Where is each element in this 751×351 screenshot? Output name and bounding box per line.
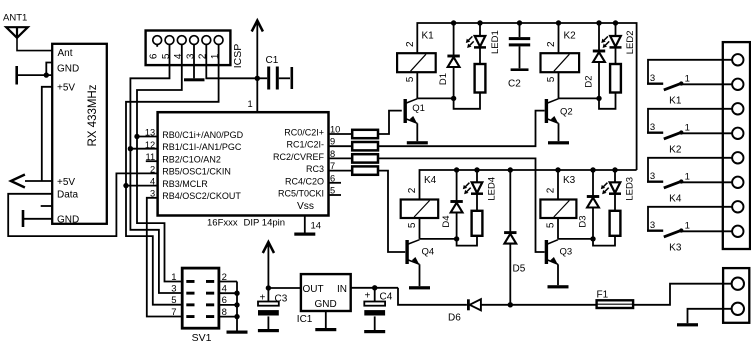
wire relay rail lower <box>420 170 637 200</box>
ground Q2 <box>548 141 569 144</box>
ground Q3 <box>548 285 569 288</box>
diode D3 <box>592 170 594 197</box>
wire ICSP pin2 +5V to C1 node <box>206 44 257 79</box>
ground bar ICSP <box>184 78 205 81</box>
svg-text:5: 5 <box>546 222 557 228</box>
svg-text:K2: K2 <box>564 31 577 42</box>
svg-text:LED3: LED3 <box>624 177 635 201</box>
led LED2 <box>615 23 617 36</box>
wire Q2 emitter to ground <box>558 123 560 141</box>
wire D6 to fuse F1 <box>481 304 597 306</box>
svg-text:RB2/C1O/AN2: RB2/C1O/AN2 <box>162 154 221 164</box>
led LED3 <box>614 170 616 182</box>
svg-text:5: 5 <box>171 295 176 306</box>
wire K4 pin5 to Q4 collector node <box>419 218 421 239</box>
wire ICSP pin3 to ground <box>193 44 195 79</box>
wire antenna to RX Ant pin <box>17 37 52 51</box>
svg-text:3: 3 <box>650 73 655 84</box>
transistor Q1 <box>404 99 407 123</box>
wire IC1 IN to C4 node and input <box>351 287 398 289</box>
connector X1 (relay outputs) <box>723 42 750 249</box>
wire K1 pin5 to Q1 collector node <box>416 72 418 98</box>
resistor R5 (LED1 series) <box>475 64 486 93</box>
svg-text:+5V: +5V <box>57 83 75 94</box>
pin stub MCU pin6 (nc) <box>329 182 342 184</box>
wire Q1 emitter to ground <box>416 123 418 141</box>
svg-text:7: 7 <box>171 307 176 318</box>
svg-text:D1: D1 <box>438 73 449 85</box>
capacitor C2 <box>508 23 530 90</box>
svg-text:IC1: IC1 <box>297 314 313 325</box>
resistor R2 (RC1 to Q2) <box>329 145 353 147</box>
wire RX +5V pins tied <box>42 87 52 181</box>
svg-text:RB0/C1i+/AN0/PGD: RB0/C1i+/AN0/PGD <box>162 130 243 140</box>
wire node to LED1 resistor <box>454 93 480 109</box>
svg-text:8: 8 <box>330 149 335 159</box>
wire +12V top rail <box>417 23 636 170</box>
svg-text:C2: C2 <box>508 79 521 90</box>
wire power connector to ground <box>688 309 732 323</box>
svg-text:LED2: LED2 <box>625 31 636 55</box>
svg-text:RB1/C1I-/AN1/PGC: RB1/C1I-/AN1/PGC <box>162 142 242 152</box>
ground C4 <box>364 330 385 333</box>
junction dot D1 bottom <box>451 96 456 101</box>
pin stub MCU pin12 <box>130 148 157 150</box>
ground plate bar (RX top GND) <box>15 66 18 85</box>
wire node to LED2 resistor <box>599 93 616 109</box>
power arrow +5V (top) <box>252 21 263 32</box>
svg-text:K1: K1 <box>669 95 682 106</box>
ground Q1 <box>407 141 428 144</box>
ground plate bar (RX bottom GND) <box>22 210 25 227</box>
svg-text:12: 12 <box>145 140 155 150</box>
wire R2 to Q2 base <box>378 111 544 147</box>
svg-text:RC1/C2I-: RC1/C2I- <box>286 140 324 150</box>
svg-text:1: 1 <box>685 122 690 133</box>
svg-text:RC4/C2O: RC4/C2O <box>285 176 324 186</box>
svg-text:Q2: Q2 <box>560 107 573 118</box>
svg-text:F1: F1 <box>597 290 609 301</box>
voltage regulator IC1 <box>297 274 351 325</box>
diode D2 <box>598 23 600 51</box>
wire ICSP pin4 PGD to MCU pin13 and SV1 pin1 <box>137 44 182 282</box>
svg-text:SV1: SV1 <box>192 332 212 344</box>
wire SV1 even pins to ground <box>219 281 237 283</box>
led LED4 <box>476 170 478 182</box>
wire ICSP pin1 MCLR to MCU pin4 and SV1 pin5 <box>126 44 219 305</box>
svg-text:D4: D4 <box>441 215 452 227</box>
wire R3 to Q3 base <box>378 158 544 252</box>
svg-text:+5V: +5V <box>57 177 75 188</box>
svg-text:RC2/CVREF: RC2/CVREF <box>273 152 325 162</box>
junction dot D5 node <box>508 302 513 307</box>
switch contact K2 <box>647 109 732 156</box>
resistor R3 (RC2 to Q3) <box>329 157 353 159</box>
svg-text:IN: IN <box>337 284 347 295</box>
svg-text:D3: D3 <box>577 215 588 227</box>
wire F1 to power connector <box>633 284 732 305</box>
wire K3 pin2 to rail <box>557 170 559 200</box>
capacitor C4 <box>364 288 392 330</box>
svg-text:2: 2 <box>150 164 155 174</box>
svg-text:5: 5 <box>330 186 335 196</box>
svg-text:Q3: Q3 <box>560 247 573 258</box>
svg-text:RC0/C2I+: RC0/C2I+ <box>284 128 324 138</box>
svg-text:D6: D6 <box>448 313 461 324</box>
svg-text:DIP 14pin: DIP 14pin <box>244 218 286 229</box>
svg-text:5: 5 <box>407 222 418 228</box>
pin stub MCU pin13 <box>137 136 158 138</box>
diode D5 <box>509 170 511 233</box>
wire K2 pin5 to Q2 collector node <box>558 72 560 98</box>
connector X2 (power) <box>723 268 749 323</box>
junction dots on top rail <box>451 20 456 25</box>
power arrow +5V (bottom) <box>263 242 274 253</box>
microcontroller IC 16Fxxx <box>145 112 340 215</box>
svg-text:GND: GND <box>57 215 79 226</box>
svg-text:2: 2 <box>546 41 557 47</box>
antenna ANT1 <box>3 13 28 38</box>
svg-text:RC3: RC3 <box>306 164 324 174</box>
junction dot RX GND <box>44 72 49 77</box>
diode D1 <box>453 23 455 56</box>
switch contact K1 <box>647 60 732 107</box>
switch contact K4 <box>647 158 732 205</box>
relay K2 <box>541 53 580 72</box>
junction dot +5V node <box>255 76 260 81</box>
wire RX bottom GND to ground plate <box>24 218 52 220</box>
svg-text:Q1: Q1 <box>412 103 425 114</box>
relay K4 <box>401 200 439 219</box>
svg-text:K4: K4 <box>424 175 437 186</box>
svg-text:Ant: Ant <box>58 48 73 59</box>
diode D6 <box>448 299 481 323</box>
ground SV1 <box>227 331 248 334</box>
ground IC1 <box>315 328 336 331</box>
fuse F1 <box>597 290 634 308</box>
svg-text:K3: K3 <box>669 242 682 253</box>
svg-text:+: + <box>365 291 371 302</box>
wire node to LED3 resistor <box>593 236 615 246</box>
svg-text:K3: K3 <box>563 175 576 186</box>
junction dots SV1 ground <box>234 291 239 296</box>
transistor Q3 <box>545 240 548 264</box>
svg-text:K2: K2 <box>669 144 682 155</box>
transistor Q2 <box>545 99 548 123</box>
relay K1 <box>397 53 436 72</box>
junction dot C3 node <box>266 285 271 290</box>
wire MCU pin3 to SV1 pin7 <box>147 198 182 317</box>
resistor R7 (LED4 series) <box>472 211 483 236</box>
pin stub MCU pin5 (nc) <box>329 194 342 196</box>
pin stub MCU pin11 (nc) <box>146 160 158 162</box>
svg-text:OUT: OUT <box>303 284 324 295</box>
svg-text:6: 6 <box>330 173 335 183</box>
svg-text:1: 1 <box>685 220 690 231</box>
svg-text:3: 3 <box>171 284 176 295</box>
wire Q4 emitter to ground <box>419 264 421 286</box>
svg-text:ANT1: ANT1 <box>3 13 27 24</box>
svg-text:K4: K4 <box>669 193 682 204</box>
connector SV1 <box>171 268 227 344</box>
svg-text:Data: Data <box>57 190 79 201</box>
junction dot MCU pin12 <box>128 146 133 151</box>
wire RX Data to MCU pin 2 <box>8 173 157 236</box>
wire K3 pin5 to Q3 collector node <box>557 218 559 239</box>
svg-text:2: 2 <box>546 187 557 193</box>
svg-text:D2: D2 <box>583 75 594 87</box>
capacitor C3 <box>258 288 288 330</box>
svg-text:7: 7 <box>330 161 335 171</box>
svg-text:RB5/OSC1/CKIN: RB5/OSC1/CKIN <box>162 167 231 177</box>
resistor R6 (LED2 series) <box>610 64 621 93</box>
wire node to LED4 resistor <box>457 236 477 246</box>
connector ICSP <box>146 31 244 69</box>
svg-text:2: 2 <box>405 41 416 47</box>
stub RX NC pin <box>41 205 52 207</box>
svg-text:C3: C3 <box>275 294 288 305</box>
led LED1 <box>479 23 481 36</box>
svg-text:3: 3 <box>650 122 655 133</box>
svg-text:RX 433MHz: RX 433MHz <box>87 84 99 146</box>
wire +5V arrow to IC1 OUT <box>267 242 269 288</box>
svg-text:3: 3 <box>650 220 655 231</box>
relay K3 <box>540 200 576 219</box>
wire Q3 emitter to ground <box>557 264 559 285</box>
svg-text:C1: C1 <box>266 55 279 66</box>
svg-text:RC5/T0CKI: RC5/T0CKI <box>278 189 324 199</box>
svg-text:1: 1 <box>248 99 253 109</box>
svg-text:RB4/OSC2/CKOUT: RB4/OSC2/CKOUT <box>162 191 241 201</box>
wire K2 pin2 to rail <box>558 23 560 53</box>
resistor R1 (RC0 to Q1) <box>329 133 353 135</box>
ground C3 <box>258 329 279 332</box>
svg-text:RB3/MCLR: RB3/MCLR <box>162 179 208 189</box>
wire ICSP pin6 stub <box>156 44 158 47</box>
svg-text:9: 9 <box>330 137 335 147</box>
wire MCU pin14 Vss to ground <box>304 216 306 233</box>
svg-text:LED4: LED4 <box>487 177 498 201</box>
junction dot C4 node <box>372 285 377 290</box>
junction dot MCU pin4 <box>123 183 128 188</box>
diode D4 <box>456 170 458 202</box>
svg-text:Q4: Q4 <box>422 247 435 258</box>
svg-text:1: 1 <box>685 171 690 182</box>
transistor Q4 <box>405 240 408 264</box>
wire IC1 input from D6 <box>398 288 467 305</box>
capacitor C1 <box>257 55 293 90</box>
svg-text:14: 14 <box>311 221 322 232</box>
svg-text:LED1: LED1 <box>490 30 501 54</box>
wire R4 to Q4 base <box>378 171 405 252</box>
resistor R8 (LED3 series) <box>610 211 621 236</box>
svg-text:4: 4 <box>150 177 155 187</box>
wire +5V arrow to MCU pin1 <box>256 21 258 113</box>
svg-text:D5: D5 <box>513 264 526 275</box>
ground Q4 <box>409 286 430 289</box>
junction dots on lower rail <box>454 167 459 172</box>
RX 433MHz receiver module RX1 <box>52 44 107 226</box>
svg-text:10: 10 <box>330 125 340 135</box>
svg-text:1: 1 <box>171 272 176 283</box>
svg-text:2: 2 <box>407 187 418 193</box>
svg-text:16Fxxx: 16Fxxx <box>207 218 238 229</box>
svg-text:GND: GND <box>57 63 79 74</box>
resistor R4 (RC3 to Q4) <box>329 170 353 172</box>
svg-text:5: 5 <box>405 76 416 82</box>
svg-text:3: 3 <box>650 171 655 182</box>
wire RX GND pin to ground plate <box>46 63 52 76</box>
junction dot MCU pin13 <box>134 134 139 139</box>
svg-text:ICSP: ICSP <box>232 44 244 69</box>
ground power connector <box>677 323 698 326</box>
svg-text:Vss: Vss <box>297 201 314 212</box>
wire IC1 GND to ground <box>325 311 327 328</box>
switch contact K3 <box>647 207 732 254</box>
pin stub MCU pin4 <box>126 185 158 187</box>
junction dot D4 bottom <box>454 236 459 241</box>
svg-text:13: 13 <box>145 128 155 138</box>
junction dot D2 bottom <box>596 96 601 101</box>
svg-text:5: 5 <box>546 76 557 82</box>
svg-text:GND: GND <box>315 299 337 310</box>
junction dot D3 bottom <box>590 236 595 241</box>
svg-text:K1: K1 <box>422 31 435 42</box>
svg-text:1: 1 <box>685 73 690 84</box>
wire ICSP pin5 PGC to MCU pin12 and SV1 pin3 <box>130 44 182 293</box>
svg-text:6: 6 <box>149 53 160 59</box>
wire R1 to Q1 base <box>378 111 402 134</box>
ground MCU Vss <box>294 233 315 236</box>
input arrow at +5V wire <box>11 175 25 188</box>
